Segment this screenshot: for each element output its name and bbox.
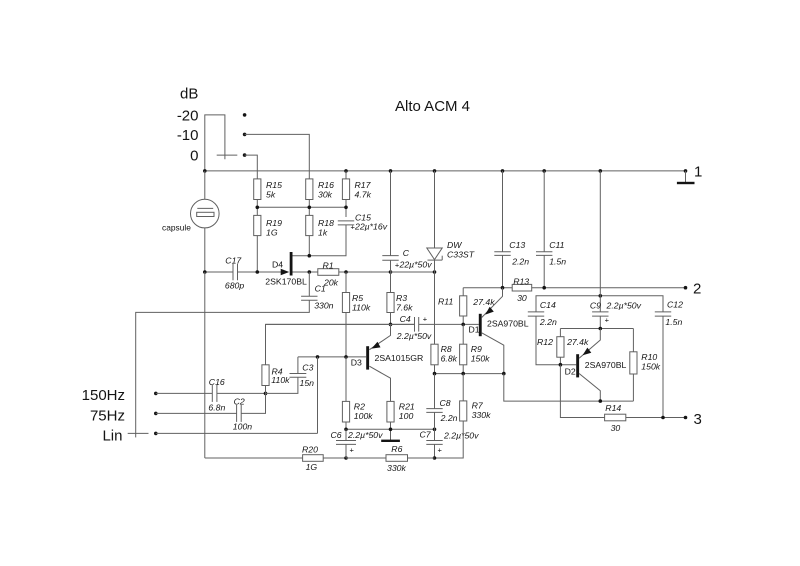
wire D3 base row bbox=[298, 356, 366, 358]
junction C14row-C9 bbox=[599, 294, 603, 298]
wire 0 contact to R15 top bbox=[245, 155, 258, 179]
svg-text:C33ST: C33ST bbox=[447, 250, 475, 260]
transistor D2 emitter bbox=[579, 329, 600, 359]
capacitor C2 bbox=[236, 405, 238, 422]
svg-text:R11: R11 bbox=[438, 297, 453, 307]
resistor R9 bbox=[460, 344, 467, 365]
junction drain-R18 bbox=[308, 254, 312, 258]
junction main-R5 bbox=[344, 270, 348, 274]
svg-text:R12: R12 bbox=[537, 337, 553, 347]
svg-text:2SA1015GR: 2SA1015GR bbox=[375, 353, 424, 363]
resistor R12 bbox=[557, 337, 564, 358]
svg-text:R5: R5 bbox=[352, 293, 363, 303]
zener diode DW C33ST bbox=[434, 171, 436, 248]
svg-text:R3: R3 bbox=[396, 293, 407, 303]
svg-text:-20: -20 bbox=[177, 108, 199, 125]
svg-text:C13: C13 bbox=[509, 240, 525, 250]
svg-text:D1: D1 bbox=[469, 324, 480, 334]
svg-text:27.4k: 27.4k bbox=[566, 337, 589, 347]
capacitor C17 bbox=[232, 264, 234, 280]
transistor D3 2SA1015GR bar bbox=[366, 346, 369, 369]
transistor D1 emitter to node2 bbox=[482, 288, 503, 318]
resistor R18 bbox=[306, 215, 313, 235]
svg-text:30: 30 bbox=[517, 293, 527, 303]
svg-text:R13: R13 bbox=[513, 276, 529, 286]
capacitor C4 bbox=[414, 317, 416, 332]
wire capsule top to bus bbox=[204, 171, 206, 199]
svg-text:R19: R19 bbox=[266, 218, 282, 228]
resistor R1 bbox=[318, 269, 339, 276]
junction boxtop-C9 bbox=[599, 327, 603, 331]
svg-text:C11: C11 bbox=[549, 240, 564, 250]
wire DW chain down to R8 bbox=[434, 272, 436, 344]
resistor R17 bbox=[342, 179, 349, 200]
junction main-R19 bbox=[255, 270, 259, 274]
wire Lin row to corner bbox=[156, 432, 318, 434]
wire top bus node 1 bbox=[205, 170, 686, 172]
svg-text:C12: C12 bbox=[667, 300, 683, 310]
svg-text:22µ*16v: 22µ*16v bbox=[354, 222, 388, 232]
junction node2-C13 bbox=[501, 286, 505, 290]
wire C1 top lead bbox=[308, 272, 310, 296]
svg-text:R6: R6 bbox=[391, 444, 402, 454]
resistor R8 bbox=[431, 344, 438, 365]
terminal dot Lin bbox=[154, 432, 158, 436]
transistor D1 2SA970BL bar bbox=[479, 314, 482, 336]
resistor R21 bbox=[387, 401, 394, 422]
junction main-C1 bbox=[308, 270, 312, 274]
resistor R20 bbox=[303, 455, 324, 462]
wire main row to DW bbox=[391, 271, 435, 273]
switch S1 contact dash (0 position) bbox=[217, 154, 238, 156]
wire row under R2 bbox=[346, 428, 435, 430]
svg-text:1G: 1G bbox=[266, 228, 278, 238]
junction bus-C9 bbox=[599, 169, 603, 173]
svg-text:2SA970BL: 2SA970BL bbox=[487, 318, 529, 328]
wire R13 to terminal 2 bbox=[532, 287, 686, 289]
svg-text:6.8k: 6.8k bbox=[441, 354, 458, 364]
svg-text:2: 2 bbox=[693, 281, 701, 298]
svg-text:100n: 100n bbox=[233, 422, 252, 432]
wire R20 to C6 bbox=[323, 457, 346, 459]
resistor R16 bbox=[306, 179, 313, 200]
svg-text:2.2n: 2.2n bbox=[440, 413, 458, 423]
wire R5 bottom to D3 base row bbox=[345, 313, 347, 357]
svg-text:2.2µ*50v: 2.2µ*50v bbox=[396, 331, 432, 341]
resistor R4 bbox=[262, 365, 269, 386]
junction bottomrail-C7 bbox=[433, 456, 437, 460]
svg-text:C: C bbox=[403, 248, 410, 258]
svg-text:5k: 5k bbox=[266, 190, 276, 200]
wire C3 top to base row bbox=[297, 357, 299, 374]
wire R7 bottom corner to bottom rail bbox=[435, 421, 464, 458]
capacitor C11 bbox=[543, 171, 545, 252]
resistor R5 bbox=[342, 293, 349, 313]
svg-text:C14: C14 bbox=[540, 300, 556, 310]
svg-text:+: + bbox=[350, 446, 355, 455]
svg-text:C3: C3 bbox=[302, 362, 313, 372]
junction rail-R8 bbox=[433, 372, 437, 376]
junction bus-DW bbox=[433, 169, 437, 173]
svg-text:15n: 15n bbox=[300, 378, 315, 388]
svg-text:4.7k: 4.7k bbox=[355, 190, 372, 200]
wire D4 source to R1 bbox=[293, 271, 318, 273]
wire R8 bottom bbox=[434, 365, 436, 374]
wire R9 top to base row bbox=[462, 324, 464, 344]
switch contact dot -10 bbox=[243, 133, 247, 137]
transistor D4 2SK170BL gate arrow bbox=[281, 269, 290, 275]
svg-text:D2: D2 bbox=[565, 367, 576, 377]
ground at terminal 1 bbox=[685, 171, 687, 182]
wire R14 to terminal 3 bbox=[626, 417, 686, 419]
capacitor C14 bbox=[528, 311, 544, 313]
svg-text:100k: 100k bbox=[354, 411, 373, 421]
terminal dot 150Hz bbox=[154, 392, 158, 396]
svg-text:6.8n: 6.8n bbox=[208, 403, 225, 413]
svg-text:R10: R10 bbox=[641, 352, 657, 362]
switch S1 wiper bbox=[205, 115, 225, 171]
wire R2 top bbox=[345, 357, 347, 402]
capacitor C electrolytic bbox=[390, 171, 392, 256]
junction mid-R16 bbox=[308, 206, 312, 210]
resistor R19 bbox=[254, 215, 261, 235]
junction main-DW bbox=[433, 270, 437, 274]
svg-text:C9: C9 bbox=[590, 301, 601, 311]
junction base-emitterD3 node bbox=[389, 323, 393, 327]
svg-text:7.6k: 7.6k bbox=[396, 303, 413, 313]
svg-text:27.4k: 27.4k bbox=[472, 297, 495, 307]
svg-text:2.2µ*50v: 2.2µ*50v bbox=[443, 430, 479, 440]
switch contact dot -20 bbox=[243, 113, 247, 117]
wire -10 contact to R16 top bbox=[245, 134, 310, 179]
wire D1 collector to D2 output loop bbox=[504, 374, 634, 402]
wire R11 bottom to base row bbox=[462, 316, 464, 324]
wire C14 row bbox=[536, 296, 663, 312]
junction bus-C11 bbox=[542, 169, 546, 173]
terminal 3 dot bbox=[684, 416, 688, 420]
junction mid-R17 bbox=[344, 206, 348, 210]
junction 150Hz-R4 bbox=[264, 392, 268, 396]
wire R12 bottom to base bbox=[559, 357, 561, 365]
wire left box vertical overshoot bbox=[135, 433, 137, 437]
ground under R21 bbox=[381, 440, 400, 442]
wire R5 top bbox=[345, 272, 347, 293]
svg-text:-10: -10 bbox=[177, 127, 199, 144]
svg-text:30k: 30k bbox=[318, 190, 333, 200]
svg-text:2.2µ*50v: 2.2µ*50v bbox=[347, 430, 383, 440]
junction rail-D1col bbox=[502, 372, 506, 376]
svg-text:2.2n: 2.2n bbox=[511, 257, 529, 267]
junction row-R21 bbox=[389, 428, 393, 432]
svg-text:R21: R21 bbox=[399, 402, 415, 412]
junction D2 base-R12 bbox=[559, 363, 563, 367]
resistor R2 bbox=[342, 401, 349, 422]
transistor D3 collector to R21 bbox=[369, 366, 390, 401]
svg-text:2SA970BL: 2SA970BL bbox=[585, 360, 627, 370]
wire R18 bottom to drain row bbox=[308, 236, 310, 256]
resistor R11 bbox=[460, 296, 467, 316]
capacitor C13 bbox=[502, 171, 504, 252]
junction node2-C11 bbox=[542, 286, 546, 290]
junction rail-R9 bbox=[461, 372, 465, 376]
svg-text:22µ*50v: 22µ*50v bbox=[399, 259, 433, 269]
svg-text:R16: R16 bbox=[318, 180, 334, 190]
svg-text:150k: 150k bbox=[641, 362, 660, 372]
wire bottom rail to R20 bbox=[205, 457, 303, 459]
terminal 2 dot bbox=[684, 286, 688, 290]
resistor R13 bbox=[512, 284, 532, 291]
wire D2 box top bbox=[560, 328, 633, 330]
terminal dot 75Hz bbox=[154, 412, 158, 416]
svg-text:R8: R8 bbox=[441, 344, 452, 354]
wire 150Hz row C16 to R4 bbox=[217, 392, 266, 394]
svg-text:C16: C16 bbox=[209, 377, 225, 387]
svg-text:+: + bbox=[438, 446, 443, 455]
capsule microphone element bbox=[191, 199, 220, 228]
resistor R14 bbox=[605, 414, 626, 421]
wire R12 top bbox=[559, 329, 561, 337]
junction D3base-R2 bbox=[344, 355, 348, 359]
svg-text:capsule: capsule bbox=[162, 223, 191, 233]
svg-text:C4: C4 bbox=[400, 314, 411, 324]
svg-text:R15: R15 bbox=[266, 180, 282, 190]
svg-text:30: 30 bbox=[611, 423, 621, 433]
junction bus-C bbox=[389, 169, 393, 173]
wire 75Hz row to C2 bbox=[156, 412, 237, 414]
terminal 1 dot bbox=[684, 169, 688, 173]
svg-text:R20: R20 bbox=[302, 445, 318, 455]
svg-text:330n: 330n bbox=[314, 300, 333, 310]
svg-text:75Hz: 75Hz bbox=[90, 408, 125, 425]
svg-text:R9: R9 bbox=[471, 344, 482, 354]
wire mid row bbox=[257, 206, 346, 208]
capacitor C7 electrolytic bbox=[434, 429, 436, 440]
svg-text:R18: R18 bbox=[318, 218, 334, 228]
svg-text:Alto ACM 4: Alto ACM 4 bbox=[395, 98, 470, 115]
capacitor C15 bbox=[338, 220, 354, 222]
transistor D3 emitter from C4 node bbox=[369, 324, 390, 349]
wire R3 top bbox=[390, 272, 392, 293]
svg-text:R7: R7 bbox=[472, 401, 484, 411]
wire C4 base row bbox=[266, 323, 415, 325]
capacitor C16 bbox=[211, 385, 213, 402]
svg-text:110k: 110k bbox=[352, 303, 371, 313]
wire 150Hz row to C16 bbox=[156, 392, 213, 394]
junction row-R2 bbox=[344, 428, 348, 432]
wire R16 bottom to mid row bbox=[308, 200, 310, 216]
svg-text:110k: 110k bbox=[271, 375, 290, 385]
resistor R15 bbox=[254, 179, 261, 200]
svg-text:150k: 150k bbox=[471, 354, 490, 364]
capacitor C6 electrolytic bbox=[345, 429, 347, 440]
capacitor C8 bbox=[434, 374, 436, 409]
svg-text:D4: D4 bbox=[272, 260, 283, 270]
wire R15 bottom to mid row bbox=[256, 200, 258, 216]
wire capsule bottom to main row bbox=[204, 228, 206, 272]
wire 75Hz row C2 to corner up bbox=[241, 393, 265, 413]
svg-text:R17: R17 bbox=[355, 180, 372, 190]
wire R11 top corner bbox=[462, 288, 464, 296]
junction bottomrail-C6 bbox=[344, 456, 348, 460]
wire node2 left segment bbox=[463, 287, 512, 289]
svg-text:330k: 330k bbox=[387, 463, 406, 473]
svg-text:1: 1 bbox=[694, 164, 702, 181]
junction main-C bbox=[389, 270, 393, 274]
svg-text:+: + bbox=[605, 315, 610, 324]
wire main row capsule to C17 bbox=[205, 271, 233, 273]
wire R1 to R5 junction bbox=[339, 271, 391, 273]
wire bottom rail R8-R9-collector bbox=[435, 373, 504, 375]
svg-text:330k: 330k bbox=[472, 410, 491, 420]
svg-text:C2: C2 bbox=[234, 397, 245, 407]
svg-text:DW: DW bbox=[447, 240, 462, 250]
junction boxbottom-D2col bbox=[599, 399, 603, 403]
capacitor C3 bbox=[290, 373, 307, 375]
transistor D2 collector bbox=[579, 374, 600, 402]
svg-text:150Hz: 150Hz bbox=[82, 387, 125, 404]
svg-text:2SK170BL: 2SK170BL bbox=[265, 277, 307, 287]
junction row-C8 bbox=[433, 428, 437, 432]
switch contact dot 0 bbox=[243, 153, 247, 157]
svg-text:+: + bbox=[423, 315, 428, 324]
wire capsule chain down-left bbox=[204, 272, 206, 458]
junction R14row-C12 bbox=[661, 416, 665, 420]
wire R9 bottom bbox=[462, 365, 464, 374]
junction D3base-Lin corner bbox=[316, 355, 320, 359]
resistor R6 bbox=[386, 455, 408, 462]
svg-text:1.5n: 1.5n bbox=[665, 317, 682, 327]
capacitor C9 electrolytic bbox=[599, 171, 601, 312]
svg-text:C8: C8 bbox=[440, 398, 451, 408]
svg-text:R1: R1 bbox=[323, 260, 334, 270]
svg-text:100: 100 bbox=[399, 411, 414, 421]
resistor R10 bbox=[630, 352, 637, 374]
svg-text:C6: C6 bbox=[331, 430, 342, 440]
wire 150Hz row R4 to C3 corner bbox=[266, 377, 298, 393]
wire C1 bottom to left box bbox=[136, 300, 310, 433]
wire R17 top to bus bbox=[345, 171, 347, 179]
wire C17 to D4 gate bbox=[238, 271, 283, 273]
svg-text:R14: R14 bbox=[605, 403, 621, 413]
junction bus-R17 bbox=[344, 169, 348, 173]
junction main-capsule bbox=[203, 270, 207, 274]
junction bus-C13 bbox=[501, 169, 505, 173]
svg-text:dB: dB bbox=[180, 86, 198, 103]
wire C15 bottom to drain row bbox=[292, 225, 346, 256]
wire R12 chain down to R14 row bbox=[560, 365, 604, 418]
svg-text:2.2µ*50v: 2.2µ*50v bbox=[606, 301, 642, 311]
wire C6 to R6 bbox=[346, 457, 386, 459]
svg-text:1G: 1G bbox=[306, 462, 318, 472]
wire R10 top bbox=[632, 329, 634, 352]
svg-text:C1: C1 bbox=[315, 284, 326, 294]
wire R7 top bbox=[462, 374, 464, 401]
svg-text:C7: C7 bbox=[420, 429, 432, 439]
wire R4 top to C4 row bbox=[266, 324, 415, 364]
svg-text:R2: R2 bbox=[354, 402, 365, 412]
wire R17 bottom to C15 top bbox=[345, 200, 347, 218]
svg-text:2.2n: 2.2n bbox=[539, 317, 557, 327]
wire Lin stub bbox=[128, 432, 149, 434]
junction mid-R15 bbox=[255, 206, 259, 210]
svg-text:0: 0 bbox=[190, 148, 198, 165]
wire R19 bottom to main row bbox=[256, 236, 258, 272]
svg-text:C17: C17 bbox=[225, 256, 242, 266]
svg-text:1.5n: 1.5n bbox=[549, 257, 566, 267]
wire R21 bottom to ground bbox=[390, 422, 392, 440]
transistor D1 collector drop bbox=[482, 333, 504, 374]
wire R6 to C7 and R7 corner bbox=[408, 457, 435, 459]
wire C14 bottom to D2 base bbox=[536, 316, 576, 365]
wire R2 bottom bbox=[345, 422, 347, 429]
junction base-R11-R9 bbox=[461, 323, 465, 327]
svg-text:1k: 1k bbox=[318, 228, 328, 238]
resistor R3 bbox=[387, 293, 394, 313]
wire Lin corner up to D3 base bbox=[317, 357, 319, 434]
resistor R7 bbox=[460, 401, 467, 421]
wire R3 bottom to emitter node bbox=[390, 313, 392, 325]
wire R4 bottom bbox=[265, 386, 267, 394]
transistor D4 bar bbox=[290, 252, 293, 276]
svg-text:Lin: Lin bbox=[102, 428, 122, 445]
capacitor C1 bbox=[301, 295, 317, 297]
transistor D2 2SA970BL bar bbox=[576, 354, 579, 377]
wire R10 bottom bbox=[632, 374, 634, 401]
svg-text:D3: D3 bbox=[351, 358, 362, 368]
svg-text:680p: 680p bbox=[225, 281, 244, 291]
junction bus-capsule bbox=[203, 169, 207, 173]
svg-text:3: 3 bbox=[694, 411, 702, 428]
capacitor C12 bbox=[655, 311, 671, 313]
